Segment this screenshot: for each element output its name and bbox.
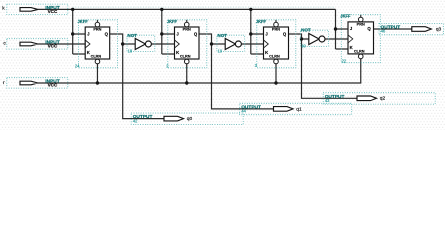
wire k drop to U1 J and K inputs <box>73 9 86 54</box>
svg-text:CLRN: CLRN <box>354 50 365 54</box>
output pin q1 symbol <box>274 107 294 112</box>
output pin q1 <box>240 103 352 114</box>
wire net c : clock input to U1 <box>38 43 85 45</box>
svg-text:PRN: PRN <box>93 28 101 32</box>
junction node r / U3 CLRN branch <box>274 81 277 84</box>
U2 PRN inversion bubble <box>184 22 189 27</box>
selection box of U1 <box>79 20 118 68</box>
wire r stub up to U1 CLRN <box>96 64 98 83</box>
inverter X2 (NOT) <box>217 33 245 53</box>
U1 PRN stub <box>96 20 98 22</box>
inverter X1 (NOT) <box>127 33 155 53</box>
U3 CLRN inversion bubble <box>274 59 279 64</box>
selection box of U2 <box>168 20 207 68</box>
U2 body <box>175 27 200 59</box>
output pin q0 symbol <box>164 116 184 121</box>
svg-text:42: 42 <box>133 118 138 123</box>
jk flip-flop U1 (JKFF) <box>75 19 118 69</box>
junction node k / U1 J branch <box>71 32 74 35</box>
X1 output inversion bubble <box>145 41 151 47</box>
X3 triangle <box>309 34 319 45</box>
svg-text:CLRN: CLRN <box>269 55 280 59</box>
wire net q1 : U2.Q to NOT X2 input and output pin q1 <box>199 34 274 109</box>
U3 clock edge triangle <box>264 40 269 48</box>
selection box of output pin q2 <box>323 93 435 104</box>
junction node q2 / X3 input branch <box>300 37 303 40</box>
junction node q0 / X1 input branch <box>121 42 124 45</box>
svg-text:44: 44 <box>241 109 246 114</box>
U4 PRN stub <box>360 15 362 17</box>
svg-text:q1: q1 <box>296 106 302 112</box>
U1 clock edge triangle <box>85 40 90 48</box>
U4 CLRN inversion bubble <box>358 54 363 59</box>
wire X2 output to U3 clock <box>241 43 263 45</box>
wire net q3 : U4.Q to output pin q3 <box>374 28 412 30</box>
svg-text:PRN: PRN <box>272 28 280 32</box>
svg-text:PRN: PRN <box>357 22 365 26</box>
input pin c symbol <box>20 42 38 46</box>
selection box of output pin q3 <box>379 23 444 34</box>
selection box of U3 <box>257 20 296 68</box>
svg-text:43: 43 <box>325 98 330 103</box>
svg-text:NOT: NOT <box>218 33 228 38</box>
output pin q0 <box>131 113 243 124</box>
svg-text:q0: q0 <box>187 116 193 122</box>
wire k drop to U3 J and K inputs <box>251 9 264 54</box>
selection box of U4 <box>341 15 380 63</box>
U2 PRN stub <box>186 20 188 22</box>
junction node k bus / U2 drop <box>160 8 163 11</box>
selection box of output pin q0 <box>131 113 243 124</box>
selection box of input pin r <box>7 78 68 88</box>
U3 PRN inversion bubble <box>274 22 279 27</box>
wire net k : top horizontal bus from input k <box>38 8 336 10</box>
output pin q3 symbol <box>412 27 432 32</box>
svg-text:VCC: VCC <box>48 9 58 14</box>
U4 PRN inversion bubble <box>358 17 363 22</box>
svg-text:PRN: PRN <box>183 28 191 32</box>
wire r stub up to U3 CLRN <box>275 64 277 83</box>
U3 body <box>264 27 289 59</box>
U1 CLRN inversion bubble <box>95 59 100 64</box>
U2 clock edge triangle <box>175 40 180 48</box>
wire k drop to U4 J and K inputs <box>336 9 349 49</box>
svg-text:VCC: VCC <box>48 44 58 49</box>
jk flip-flop U2 (JKFF) <box>166 19 207 69</box>
U4 body <box>348 22 374 54</box>
svg-text:46: 46 <box>381 29 386 34</box>
wire net k selection highlight (dotted line above bus) <box>73 6 335 8</box>
X2 output inversion bubble <box>235 41 241 47</box>
input pin k symbol <box>20 8 38 12</box>
selection box of X2 <box>217 35 245 51</box>
X2 triangle <box>225 39 235 50</box>
wire net q2 : U3.Q to NOT X3 input and output pin q2 <box>289 34 358 98</box>
junction node k / U4 J branch <box>334 27 337 30</box>
selection box of input pin c <box>7 39 68 49</box>
input pin k <box>2 4 68 14</box>
U1 PRN inversion bubble <box>95 22 100 27</box>
wire net r : reset bus to all CLRN pins <box>38 59 361 83</box>
junction node q1 / X2 input branch <box>210 42 213 45</box>
svg-text:30: 30 <box>301 44 306 49</box>
svg-text:CLRN: CLRN <box>180 55 191 59</box>
output pin q2 symbol <box>357 96 377 101</box>
svg-text:q2: q2 <box>380 96 386 102</box>
selection box of input pin k <box>7 4 68 14</box>
selection box of output pin q1 <box>240 103 352 114</box>
inverter X3 (NOT) <box>301 28 329 49</box>
wire X3 output to U4 clock <box>325 38 348 40</box>
wire r stub up to U2 CLRN <box>186 64 188 83</box>
U4 clock edge triangle <box>348 35 353 43</box>
X3 output inversion bubble <box>319 36 325 42</box>
X1 triangle <box>135 39 145 50</box>
svg-text:q3: q3 <box>436 26 442 32</box>
svg-text:VCC: VCC <box>48 83 58 88</box>
input pin r <box>3 78 68 88</box>
input pin c <box>3 39 67 49</box>
U1 body <box>85 27 110 59</box>
U3 PRN stub <box>275 20 277 22</box>
wire X1 output to U2 clock <box>151 43 174 45</box>
selection box of X1 <box>127 35 155 51</box>
junction node r / U1 CLRN branch <box>96 81 99 84</box>
U2 CLRN inversion bubble <box>184 59 189 64</box>
junction node k / U2 J branch <box>160 32 163 35</box>
output pin q2 <box>323 93 435 104</box>
wire net q0 : U1.Q to NOT X1 input and output pin q0 <box>110 34 164 119</box>
svg-text:NOT: NOT <box>128 33 138 38</box>
junction node k bus / U1 drop <box>71 8 74 11</box>
input pin r symbol <box>20 81 38 85</box>
svg-text:18: 18 <box>128 49 133 54</box>
wire k drop to U2 J and K inputs <box>162 9 175 54</box>
jk flip-flop U3 (JKFF) <box>255 19 296 68</box>
junction node k / U3 J branch <box>249 32 252 35</box>
junction node r / U2 CLRN branch <box>185 81 188 84</box>
junction node k bus / U3 drop <box>249 8 252 11</box>
jk flip-flop U4 (JKFF) <box>340 14 380 64</box>
selection box of X3 <box>301 30 329 46</box>
output pin q3 <box>379 23 444 34</box>
svg-text:CLRN: CLRN <box>91 55 102 59</box>
